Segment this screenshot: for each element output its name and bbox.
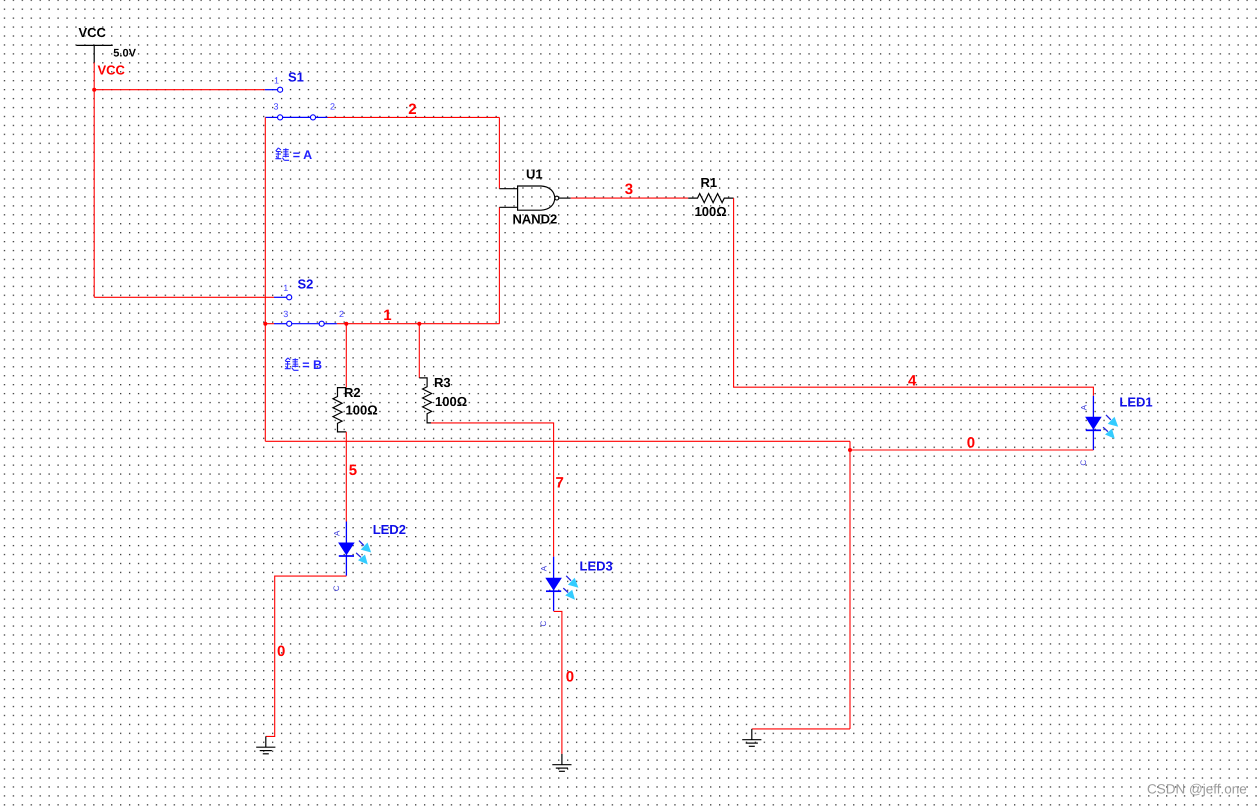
resistor R1 (688, 175, 733, 219)
wire net1 up to NAND input B (498, 207, 500, 323)
wire S2 pin3 stub (265, 323, 274, 325)
ground G2 (552, 754, 571, 771)
svg-text:5.0V: 5.0V (113, 48, 136, 60)
svg-text:= A: = A (293, 148, 312, 162)
svg-text:0: 0 (566, 668, 574, 685)
junction net0 (848, 448, 852, 452)
wire net1 S2 pin2 to NAND (337, 323, 500, 325)
wire net2 S1 pin2 to NAND (328, 116, 500, 118)
svg-text:100Ω: 100Ω (695, 204, 727, 219)
svg-text:R2: R2 (344, 385, 361, 400)
svg-text:0: 0 (967, 435, 975, 452)
wire net5 R2 to LED2 (345, 432, 347, 522)
wire net0 ground rail horizontal (265, 440, 850, 442)
wire S1 pin3 down to ground rail (264, 117, 266, 441)
wire net0 down to ground3 (849, 450, 851, 729)
resistor R2 (333, 385, 378, 432)
diode LED3 (539, 557, 613, 627)
svg-text:1: 1 (283, 283, 288, 293)
wire net7 junction to R3 (418, 324, 420, 378)
diode LED1 (1079, 394, 1153, 465)
svg-text:7: 7 (556, 474, 564, 491)
junction net5 tap (344, 322, 348, 326)
svg-text:3: 3 (625, 181, 633, 198)
svg-text:NAND2: NAND2 (513, 211, 558, 226)
switch S1 (265, 70, 335, 120)
svg-text:VCC: VCC (79, 25, 107, 40)
svg-text:1: 1 (274, 76, 279, 86)
svg-text:LED1: LED1 (1119, 394, 1152, 409)
ground G3 (742, 729, 761, 746)
svg-text:U1: U1 (526, 167, 543, 182)
svg-text:2: 2 (339, 309, 344, 319)
svg-text:S2: S2 (298, 276, 314, 291)
svg-text:CSDN @jeff.one: CSDN @jeff.one (1147, 782, 1247, 797)
svg-text:100Ω: 100Ω (435, 394, 467, 409)
wire net0 step down (849, 441, 851, 450)
label key = B (285, 358, 299, 370)
svg-text:R3: R3 (434, 375, 451, 390)
diode LED2 (332, 522, 406, 592)
wire net7 R3 to LED3 (431, 423, 554, 557)
wire net0 to ground3 (752, 728, 850, 730)
svg-text:100Ω: 100Ω (346, 402, 378, 417)
junction net7 tap (417, 322, 421, 326)
label key = A (275, 148, 289, 160)
power symbol VCC (76, 25, 136, 63)
svg-text:1: 1 (383, 307, 391, 324)
svg-text:3: 3 (283, 309, 288, 319)
svg-text:= B: = B (302, 358, 322, 372)
wire to S2 pin1 (94, 296, 274, 298)
wire net2 down (498, 117, 500, 188)
wire LED3 cathode to ground2 (554, 611, 562, 754)
svg-text:0: 0 (277, 643, 285, 660)
wire VCC stub (93, 63, 95, 90)
svg-text:3: 3 (274, 102, 279, 112)
wire net5 junction to R2 (345, 324, 347, 388)
switch S2 (274, 276, 344, 326)
ground G1 (256, 736, 275, 753)
wire LED2 cathode to ground1 (266, 576, 347, 736)
wire VCC to S1 pin1 (94, 89, 265, 91)
junction VCC (92, 88, 96, 92)
wire net4 R1 to LED1 (734, 198, 1094, 396)
svg-text:2: 2 (330, 102, 335, 112)
svg-text:5: 5 (349, 462, 357, 479)
svg-text:LED2: LED2 (373, 522, 406, 537)
svg-text:LED3: LED3 (580, 558, 613, 573)
junction S2 pin3 (263, 322, 267, 326)
svg-text:2: 2 (408, 101, 416, 118)
wire net3 NAND out to R1 (571, 197, 689, 199)
svg-text:VCC: VCC (98, 63, 126, 78)
svg-text:R1: R1 (701, 175, 718, 190)
svg-text:S1: S1 (288, 70, 304, 85)
wire net0 to LED1 cathode (850, 449, 1093, 451)
resistor R3 (419, 375, 467, 423)
wire VCC down to S2 pin1 (93, 90, 95, 298)
NAND gate U1 (499, 167, 570, 227)
